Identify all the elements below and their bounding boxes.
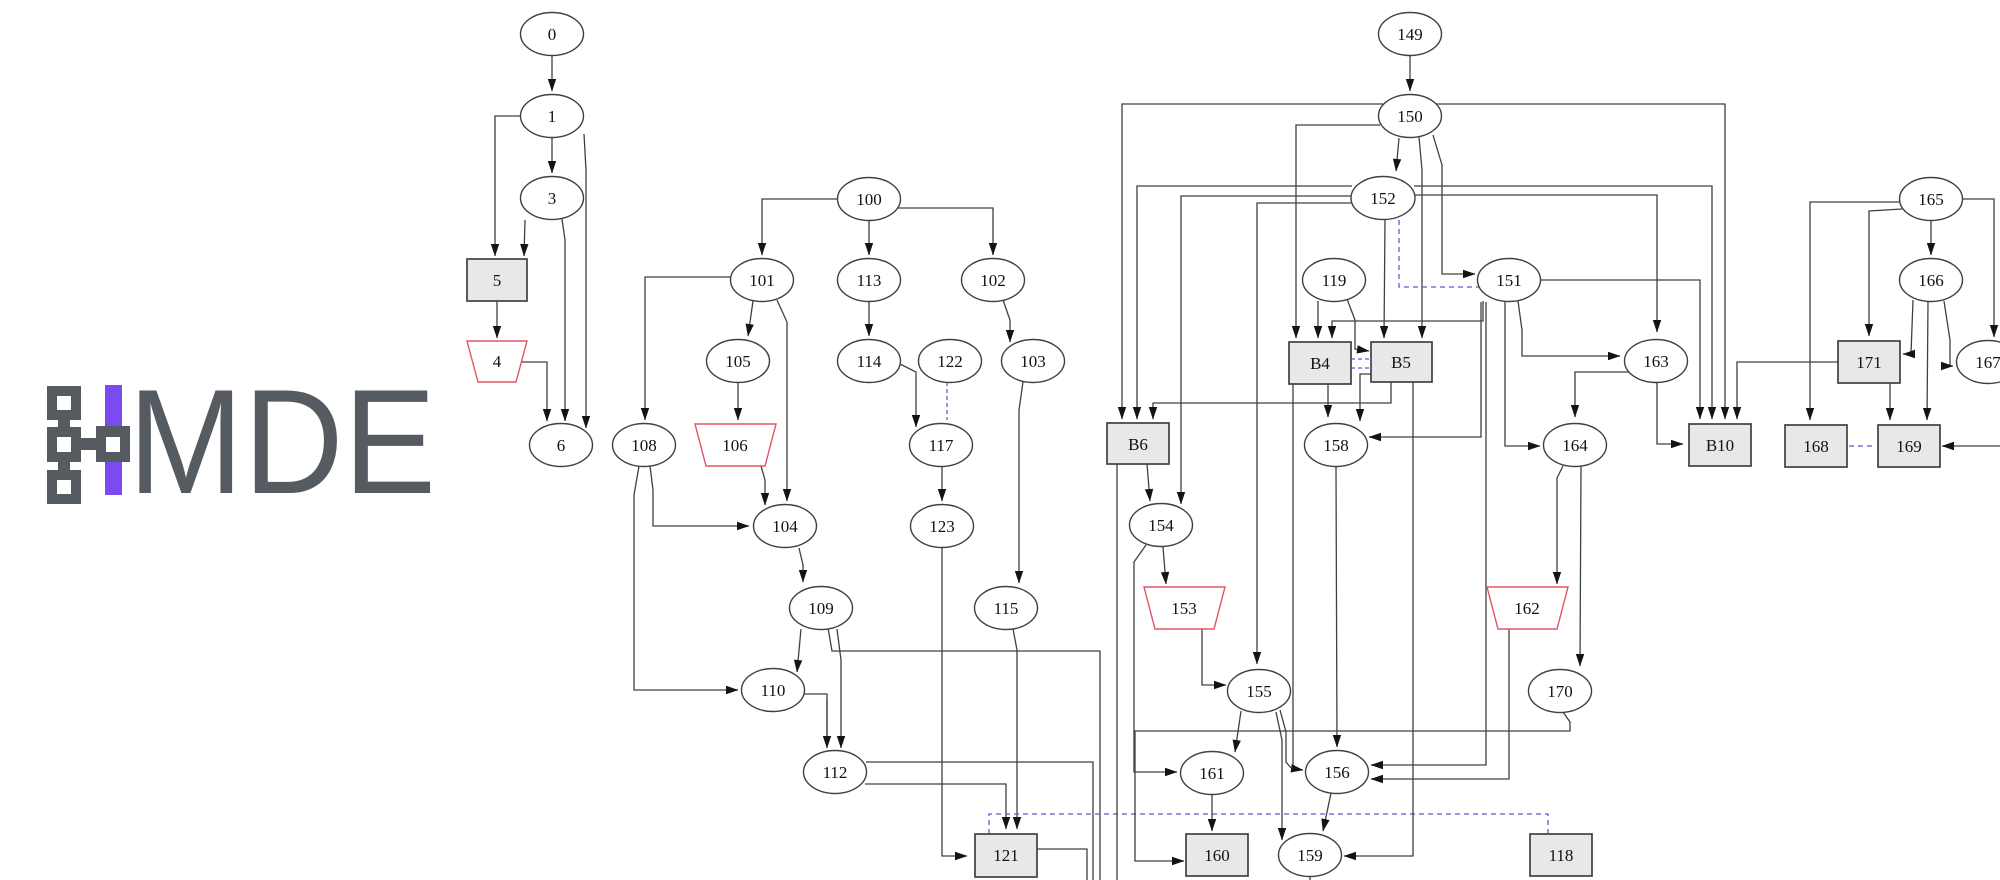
wire B4 to 158: [1327, 384, 1329, 417]
wire 151 to 163: [1518, 301, 1620, 356]
svg-text:150: 150: [1397, 107, 1423, 126]
node 123: [911, 505, 974, 548]
wire B6 to 154: [1147, 464, 1150, 501]
node 104: [754, 505, 817, 548]
wire 119 to B4: [1317, 301, 1319, 338]
svg-text:166: 166: [1918, 271, 1944, 290]
wire 117 to 123: [941, 467, 943, 501]
wire 101 to 104: [777, 300, 787, 501]
svg-text:4: 4: [493, 352, 502, 371]
node 151: [1478, 259, 1541, 302]
wire 152 to 163: [1414, 195, 1657, 332]
svg-text:152: 152: [1370, 189, 1396, 208]
wire 162 to 156: [1371, 629, 1509, 779]
svg-text:121: 121: [993, 846, 1019, 865]
svg-text:164: 164: [1562, 436, 1588, 455]
svg-text:122: 122: [937, 352, 963, 371]
wire 159 bottom cut: [1309, 876, 1311, 880]
node 154: [1130, 504, 1193, 547]
svg-text:118: 118: [1549, 846, 1574, 865]
wire 115 to 121: [1013, 629, 1017, 829]
wire 1 to 5: [495, 116, 521, 256]
node 102: [962, 259, 1025, 302]
wire 151 to 158: [1369, 302, 1481, 437]
wire 3 to 6: [562, 219, 565, 421]
wire 5 to 4: [496, 301, 498, 338]
node 112: [804, 751, 867, 794]
svg-text:167: 167: [1975, 353, 2000, 372]
node 149: [1379, 13, 1442, 56]
svg-text:158: 158: [1323, 436, 1349, 455]
wire right edge to 169: [1942, 445, 2000, 447]
svg-text:3: 3: [548, 189, 557, 208]
wire 106 to 104: [761, 466, 765, 505]
wire 165 to 167: [1962, 199, 1994, 337]
node 4: [467, 341, 527, 382]
wire 101 to 108: [645, 277, 733, 420]
wire B5 to 158: [1360, 374, 1371, 421]
wire 150 to B10: [1436, 104, 1725, 419]
wire 121 dashed to 118: [989, 814, 1548, 834]
wire 155 to 161: [1235, 711, 1241, 752]
wire B5 to 159: [1344, 382, 1413, 856]
wire 100 to 102: [897, 208, 993, 255]
node 150: [1379, 95, 1442, 138]
node 162: [1487, 587, 1568, 629]
svg-text:171: 171: [1856, 353, 1882, 372]
wire 170 to 160: [1135, 712, 1570, 861]
node 5: [467, 259, 527, 301]
wire 1 to 6: [584, 134, 586, 428]
node 118: [1530, 834, 1592, 876]
node 0: [521, 13, 584, 56]
svg-text:B10: B10: [1706, 436, 1734, 455]
svg-text:169: 169: [1896, 437, 1922, 456]
wire 1 to 3: [551, 138, 553, 173]
svg-text:B4: B4: [1310, 354, 1330, 373]
svg-text:119: 119: [1322, 271, 1347, 290]
svg-text:156: 156: [1324, 763, 1350, 782]
node 167: [1957, 341, 2000, 384]
wire 114 to 117: [898, 363, 916, 427]
wire 112 right cut: [866, 762, 1093, 880]
svg-text:123: 123: [929, 517, 955, 536]
logo icon square middle: [47, 427, 81, 462]
node 105: [707, 340, 770, 383]
svg-text:149: 149: [1397, 25, 1423, 44]
node 168: [1785, 425, 1847, 467]
svg-text:B5: B5: [1391, 353, 1411, 372]
svg-text:6: 6: [557, 436, 566, 455]
svg-text:102: 102: [980, 271, 1006, 290]
node 166: [1900, 259, 1963, 302]
wire 151 to 156: [1371, 302, 1486, 765]
wire 152 to 155: [1257, 203, 1351, 664]
svg-text:109: 109: [808, 599, 834, 618]
node 3: [521, 177, 584, 220]
node 170: [1529, 670, 1592, 713]
svg-text:112: 112: [823, 763, 848, 782]
node 109: [790, 587, 853, 630]
node 164: [1544, 424, 1607, 467]
wire 110 to 112: [804, 694, 827, 746]
node 106: [695, 424, 776, 466]
svg-text:153: 153: [1171, 599, 1197, 618]
wire 150 to 152: [1396, 138, 1399, 171]
node 114: [838, 340, 901, 383]
logo icon square right: [96, 426, 130, 462]
wire 161 to 160: [1211, 794, 1213, 831]
wire 152 to 154: [1181, 196, 1352, 504]
wire 166 to 171: [1903, 300, 1913, 354]
node 160: [1186, 834, 1248, 876]
wire 165 to 168: [1810, 202, 1901, 420]
wire 113 to 114: [868, 302, 870, 336]
svg-text:103: 103: [1020, 352, 1046, 371]
wire 166 to 167: [1944, 301, 1953, 366]
wire 112 to 121: [865, 784, 1006, 829]
wire 151 to 164: [1505, 301, 1540, 446]
wire 105 to 106: [737, 382, 739, 420]
wire 164 to 170: [1580, 466, 1581, 666]
svg-text:B6: B6: [1128, 435, 1148, 454]
svg-text:115: 115: [994, 599, 1019, 618]
logo icon connector arm: [78, 438, 100, 450]
logo icon square bottom: [47, 470, 81, 504]
wire 100 to 113: [868, 221, 870, 255]
wire 171 to 169: [1889, 383, 1891, 420]
node 153: [1144, 587, 1225, 629]
node 108: [613, 424, 676, 467]
wire 3 to 5: [524, 220, 525, 256]
node 161: [1181, 752, 1244, 795]
svg-text:114: 114: [857, 352, 882, 371]
node 100: [838, 178, 901, 221]
wire 151 to B10: [1540, 280, 1700, 419]
svg-text:113: 113: [857, 271, 882, 290]
wire 149 to 150: [1409, 56, 1411, 91]
wire 122 to 117 dashed: [946, 382, 948, 420]
node 117: [910, 424, 973, 467]
wire 152 to B5: [1384, 220, 1385, 338]
svg-text:106: 106: [722, 436, 748, 455]
wire 104 to 109: [799, 548, 803, 582]
wire 152 to B10: [1414, 186, 1712, 419]
svg-text:163: 163: [1643, 352, 1669, 371]
svg-text:162: 162: [1514, 599, 1540, 618]
node B5: [1371, 342, 1432, 382]
wire B6 bottom cut: [1116, 464, 1118, 880]
node 169: [1878, 425, 1940, 467]
wire 109 right to 156: [828, 628, 1100, 880]
wire 119 to B5: [1347, 299, 1369, 351]
node 113: [838, 259, 901, 302]
svg-text:5: 5: [493, 271, 502, 290]
logo purple bar: [105, 385, 122, 495]
svg-text:117: 117: [929, 436, 954, 455]
node B4: [1289, 342, 1351, 384]
svg-text:0: 0: [548, 25, 557, 44]
wire 150 to B5: [1419, 137, 1422, 338]
node 1: [521, 95, 584, 138]
wire 121 right cut: [1037, 849, 1087, 880]
node 158: [1305, 424, 1368, 467]
wire 150 to B6: [1122, 104, 1384, 419]
wire 109 to 112: [837, 629, 841, 748]
svg-text:155: 155: [1246, 682, 1272, 701]
wire 123 to 121: [942, 548, 967, 856]
svg-text:110: 110: [761, 681, 786, 700]
svg-text:159: 159: [1297, 846, 1323, 865]
svg-text:151: 151: [1496, 271, 1522, 290]
wire B4 down to 156: [1293, 384, 1303, 770]
svg-text:108: 108: [631, 436, 657, 455]
wire 101 to 105: [748, 301, 753, 336]
node 6: [530, 424, 593, 467]
node 122: [919, 340, 982, 383]
wire 100 to 101: [762, 199, 838, 255]
node 155: [1228, 670, 1291, 713]
wire B4 B5 dashed pair: [1351, 359, 1371, 368]
wire 168 dashed 169: [1849, 445, 1876, 447]
wire 165 to 166: [1930, 221, 1932, 255]
svg-text:168: 168: [1803, 437, 1829, 456]
node 163: [1625, 340, 1688, 383]
wire 150 to 151: [1433, 135, 1475, 274]
wire 154 to 161: [1134, 545, 1177, 772]
wire 108 to 110: [634, 466, 738, 690]
wire 155 to 159: [1276, 712, 1282, 840]
node 159: [1279, 834, 1342, 877]
wire 109 to 110: [797, 629, 801, 672]
wire 151 to B4: [1332, 301, 1483, 338]
node 171: [1838, 341, 1900, 383]
wire 163 to 164: [1575, 372, 1631, 417]
wire 166 to 169: [1927, 302, 1928, 420]
node 110: [742, 669, 805, 712]
svg-text:154: 154: [1148, 516, 1174, 535]
wire 158 to 156: [1336, 467, 1337, 747]
wire 0 to 1: [551, 56, 553, 91]
node 119: [1303, 259, 1366, 302]
wire 154 to 153: [1163, 547, 1166, 584]
wire 156 to 159: [1323, 793, 1331, 831]
wire 153 to 155: [1202, 629, 1226, 685]
wire B5 to B6: [1153, 382, 1391, 419]
wire 155 to 156: [1280, 710, 1291, 768]
wire 102 to 103: [1003, 300, 1010, 342]
svg-text:105: 105: [725, 352, 751, 371]
svg-text:165: 165: [1918, 190, 1944, 209]
wire 152 to 151 dashed: [1399, 220, 1494, 287]
node 121: [975, 834, 1037, 877]
node 165: [1900, 178, 1963, 221]
svg-text:170: 170: [1547, 682, 1573, 701]
wire 164 to 162: [1557, 466, 1563, 584]
svg-text:160: 160: [1204, 846, 1230, 865]
wire 103 to 115: [1019, 382, 1023, 583]
svg-text:1: 1: [548, 107, 557, 126]
wire 4 to 6: [519, 362, 547, 421]
wire 152 to B6: [1137, 186, 1352, 419]
wire 150 to B4: [1296, 125, 1380, 338]
node 115: [975, 587, 1038, 630]
wire 165 to 171: [1869, 209, 1902, 336]
svg-text:MDE: MDE: [128, 358, 436, 525]
node 101: [731, 259, 794, 302]
node B10: [1689, 424, 1751, 466]
svg-text:161: 161: [1199, 764, 1225, 783]
wire 171 to B10: [1737, 362, 1838, 419]
logo icon square top: [58, 392, 70, 496]
node 156: [1306, 751, 1369, 794]
wire 163 to B10: [1657, 382, 1683, 444]
svg-text:104: 104: [772, 517, 798, 536]
svg-text:100: 100: [856, 190, 882, 209]
node 103: [1002, 340, 1065, 383]
node B6: [1107, 423, 1169, 464]
svg-text:101: 101: [749, 271, 775, 290]
node 152: [1351, 177, 1415, 220]
wire 108 to 104: [650, 466, 749, 526]
